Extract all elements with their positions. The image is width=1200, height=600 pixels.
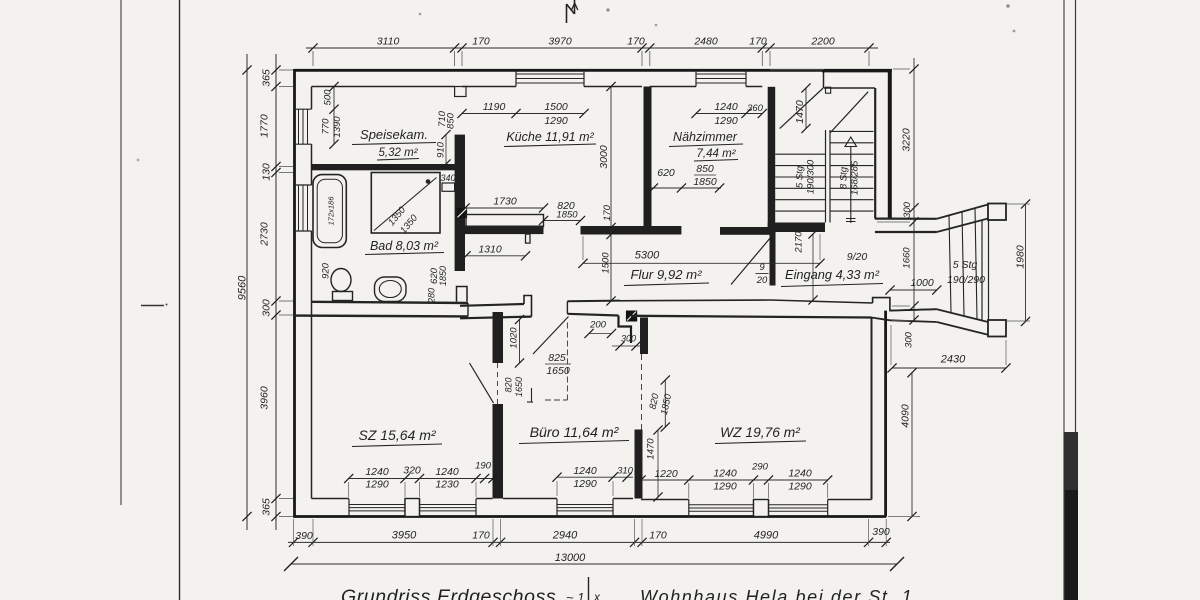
dim text 1850 (Kueche door) <box>556 210 578 221</box>
svg-text:5 Stg: 5 Stg <box>953 259 978 271</box>
dim porch 1000 <box>885 277 941 295</box>
room label Buero <box>519 425 629 444</box>
svg-text:190/290: 190/290 <box>947 274 985 286</box>
svg-text:1470: 1470 <box>646 438 657 460</box>
dim text 3110 <box>377 36 400 48</box>
dim text 920 WC <box>321 262 332 279</box>
wall exterior bottom inner segments <box>312 499 872 500</box>
dim text 850 (Speisekam) <box>446 112 457 129</box>
svg-text:1190: 1190 <box>483 101 506 113</box>
room label WZ <box>715 425 806 444</box>
fold mark dash left <box>141 304 168 306</box>
wall Bad south (300) <box>293 302 468 317</box>
svg-text:1660: 1660 <box>902 247 913 269</box>
dim text 1290 (WZ b) <box>788 481 812 493</box>
dim text 1230 (SZ b) <box>435 479 459 491</box>
stair cellar door jamb <box>826 87 831 93</box>
svg-text:390: 390 <box>872 526 890 538</box>
svg-text:Küche 11,91 m²: Küche 11,91 m² <box>506 130 594 144</box>
svg-text:1240: 1240 <box>714 101 738 113</box>
bathtub <box>313 175 346 248</box>
stair slope diagonal right <box>830 92 868 133</box>
door swing dash SZ <box>497 363 499 404</box>
dim Buero windows row <box>552 473 633 482</box>
svg-text:168/285: 168/285 <box>850 160 861 195</box>
dim line top chain <box>306 43 878 66</box>
title Wohnhaus <box>640 587 913 600</box>
dim text 1290 (Kueche) <box>544 115 568 127</box>
svg-text:365: 365 <box>261 498 273 516</box>
wall Flur north segment Kueche <box>465 226 544 235</box>
dim Kueche window <box>457 109 588 118</box>
svg-text:3950: 3950 <box>392 530 417 542</box>
svg-text:910: 910 <box>436 141 447 158</box>
dim text 130 <box>261 163 273 181</box>
dim line bottom overall <box>284 557 904 571</box>
room label Bad <box>365 239 444 255</box>
svg-text:1240: 1240 <box>713 468 737 480</box>
svg-text:20: 20 <box>756 275 768 286</box>
dim text 390 (right) <box>872 526 890 538</box>
wall Flur north segment Naehzimmer <box>720 227 770 235</box>
page border line left B <box>179 0 181 600</box>
room label Speisekam <box>352 127 436 145</box>
dim text 500 <box>323 89 334 106</box>
dim text 1240 (WZ a) <box>713 468 737 480</box>
wall WZ north <box>620 300 873 318</box>
svg-text:8 Stg: 8 Stg <box>839 166 850 189</box>
dim text 1770 <box>259 114 271 138</box>
dim stair landing 1470 <box>794 83 811 133</box>
dim text 190 <box>475 461 492 472</box>
dim text 1240 (SZ a) <box>365 466 389 478</box>
svg-text:310: 310 <box>617 466 634 477</box>
wall exterior top inner Naehzimmer <box>650 86 763 88</box>
title Grundriss Erdgeschoss <box>341 586 556 600</box>
dim text 9560 <box>237 275 249 300</box>
window SZ bottom 1 <box>349 499 405 517</box>
door corner mark Buero <box>527 388 533 402</box>
svg-text:172x186: 172x186 <box>327 196 336 226</box>
svg-text:~ 1: ~ 1 <box>566 590 584 600</box>
svg-text:1850: 1850 <box>556 210 578 221</box>
dim Naehzimmer door 620 <box>649 167 724 193</box>
external stair top edge <box>937 205 988 233</box>
dim text 390 (left) <box>295 530 313 542</box>
svg-text:3970: 3970 <box>548 36 572 48</box>
dim text 9/20 (Haustuer) <box>847 251 868 263</box>
svg-text:320: 320 <box>403 465 421 477</box>
wall exterior stairwell top inner <box>822 71 891 88</box>
svg-text:920: 920 <box>321 262 332 279</box>
door leaf SZ <box>470 363 494 403</box>
dim Kueche door <box>539 216 585 225</box>
wall Flur north segment mid <box>581 226 682 235</box>
svg-text:1240: 1240 <box>788 468 812 480</box>
shower tray <box>371 173 440 234</box>
dim text 3960 <box>259 386 271 410</box>
stair label 5 Stg 190/300 <box>795 159 817 194</box>
svg-text:Eingang 4,33 m²: Eingang 4,33 m² <box>785 267 880 282</box>
svg-text:1290: 1290 <box>365 479 389 491</box>
dim text 300 (left) <box>261 299 273 317</box>
wall Flur south B <box>567 301 620 316</box>
svg-text:770: 770 <box>321 118 332 135</box>
wall exterior bottom outer <box>293 515 886 518</box>
svg-text:1650: 1650 <box>546 365 570 377</box>
stair up arrow <box>845 137 857 223</box>
svg-text:9: 9 <box>759 262 765 273</box>
door leaf Buero <box>533 317 569 355</box>
svg-text:850: 850 <box>696 163 714 175</box>
dim text 1500 (Flur) <box>601 252 612 274</box>
door jamb stub Flur north <box>526 234 531 243</box>
svg-text:1980: 1980 <box>1015 245 1027 269</box>
svg-text:170: 170 <box>649 530 667 542</box>
room label Speisekam area <box>377 147 419 160</box>
svg-text:9560: 9560 <box>237 275 249 300</box>
dim Speisekam window <box>329 82 338 149</box>
bidet <box>375 277 407 302</box>
dim Buero/WZ door 820/1850 <box>648 375 675 431</box>
svg-text:9/20: 9/20 <box>847 251 868 263</box>
svg-text:SZ 15,64 m²: SZ 15,64 m² <box>358 427 436 443</box>
svg-text:300: 300 <box>902 201 913 218</box>
svg-text:3960: 3960 <box>259 386 271 410</box>
svg-text:3110: 3110 <box>377 36 400 48</box>
flue square WZ <box>626 311 637 322</box>
svg-text:300: 300 <box>904 331 915 348</box>
dim text 1240 (Naeh) <box>714 101 738 113</box>
wall SZ/Buero south stub <box>493 404 504 499</box>
wall SZ/Buero north stub <box>493 312 504 363</box>
svg-text:5,32 m²: 5,32 m² <box>379 147 419 159</box>
svg-text:2200: 2200 <box>810 36 835 48</box>
wall stairwell south <box>768 223 825 233</box>
wall top over stair landing (thin lintel) <box>770 69 824 71</box>
flue square Kueche <box>457 208 467 218</box>
svg-text:4090: 4090 <box>900 404 912 428</box>
svg-text:1850: 1850 <box>438 266 448 286</box>
dim text 365 (bottom-left) <box>261 498 273 516</box>
svg-text:1240: 1240 <box>435 466 459 478</box>
svg-text:Büro 11,64 m²: Büro 11,64 m² <box>530 425 620 441</box>
svg-text:170: 170 <box>602 204 613 221</box>
svg-text:1650: 1650 <box>514 377 524 397</box>
dim text 310 <box>617 466 634 477</box>
dim text 770 <box>321 118 332 135</box>
dim ext right chain <box>877 69 910 321</box>
dim text 2940 <box>552 530 578 542</box>
wall step Flur/WZ <box>619 316 632 344</box>
window Bad left <box>295 185 312 231</box>
dim text 620 (Bad door) <box>429 267 440 284</box>
wall jog WZ/Eingang corner <box>873 298 937 311</box>
stair treads right flight <box>830 131 874 211</box>
dim SZ windows row <box>344 474 498 483</box>
wall pier SZ bottom <box>405 499 420 517</box>
dim Flur 5300 <box>578 250 824 268</box>
dim WZ windows row <box>636 475 832 484</box>
svg-text:1290: 1290 <box>573 478 597 490</box>
room label Naehzimmer area <box>694 148 738 161</box>
svg-text:7,44 m²: 7,44 m² <box>697 148 737 160</box>
window Kueche top <box>516 70 584 87</box>
door dash Buero/WZ <box>641 354 643 430</box>
svg-text:1290: 1290 <box>788 481 812 493</box>
svg-text:Bad 8,03 m²: Bad 8,03 m² <box>370 239 439 253</box>
stair slope diagonal left <box>780 88 824 129</box>
svg-text:1230: 1230 <box>435 479 459 491</box>
svg-text:1730: 1730 <box>493 196 517 208</box>
svg-text:620: 620 <box>657 167 675 179</box>
dim text 1240 (SZ b) <box>435 466 459 478</box>
svg-text:3000: 3000 <box>598 145 610 169</box>
dim text 2730 <box>259 222 271 247</box>
wall exterior stairwell right inner <box>874 88 876 219</box>
room label Flur <box>624 267 709 286</box>
svg-text:190: 190 <box>475 461 492 472</box>
wall exterior top inner Speisekam <box>312 86 455 88</box>
wall Buero/WZ south stub <box>635 430 643 499</box>
dim text 3970 <box>548 36 572 48</box>
wall Buero/WZ north stub <box>640 318 648 355</box>
svg-text:5300: 5300 <box>635 250 660 262</box>
svg-text:2730: 2730 <box>259 222 271 247</box>
dim text 2200 <box>810 36 835 48</box>
dim text 300 (right top) <box>902 201 913 218</box>
svg-text:Grundriss Erdgeschoss: Grundriss Erdgeschoss <box>341 586 556 600</box>
toilet WC <box>331 269 353 301</box>
stair treads left flight <box>775 154 825 211</box>
window SZ bottom 2 <box>420 499 477 517</box>
dim ext 4090 <box>888 516 920 518</box>
dim ext Buero windows <box>557 481 613 496</box>
svg-text:825: 825 <box>548 352 566 364</box>
svg-text:2170: 2170 <box>794 231 805 254</box>
svg-text:365: 365 <box>261 69 273 87</box>
wall Speisekam south <box>312 164 466 170</box>
window WZ bottom 2 <box>769 500 828 517</box>
svg-text:130: 130 <box>261 163 273 181</box>
dim text 1850 (Bad door) <box>438 266 448 286</box>
svg-text:Speisekam.: Speisekam. <box>360 127 428 142</box>
door jamb bump SZ north <box>524 296 532 317</box>
dim text 340 <box>440 173 455 183</box>
svg-text:170: 170 <box>472 530 490 542</box>
dim text 13000 <box>555 552 586 564</box>
scan speck c <box>137 13 422 162</box>
dim ext SZ windows <box>349 482 476 497</box>
svg-text:5 Stg: 5 Stg <box>795 165 806 188</box>
window Naehzimmer top <box>696 70 746 87</box>
dim text 320 <box>403 465 421 477</box>
svg-text:1390: 1390 <box>332 116 343 138</box>
wall Naehzimmer east <box>768 87 776 232</box>
kitchen counter <box>466 215 544 231</box>
dim text 290 <box>751 462 769 473</box>
dim text 4990 <box>754 530 779 542</box>
wall exterior right inner (lower) <box>871 318 873 500</box>
page border line left A <box>120 0 122 505</box>
svg-text:1290: 1290 <box>544 115 568 127</box>
dim text 170 (bottom b) <box>649 530 667 542</box>
dim text 850/1850 (Naeh door) <box>693 163 717 188</box>
dim line left chain <box>271 54 293 530</box>
window Speisekam left <box>295 109 312 144</box>
dim text 170 (b) <box>627 36 645 48</box>
wall exterior left inner <box>311 87 313 499</box>
svg-text:3220: 3220 <box>901 128 913 152</box>
door leaf Flur/Eingang <box>731 231 777 285</box>
external stair bottom block <box>988 320 1006 337</box>
svg-text:1290: 1290 <box>714 115 738 127</box>
svg-text:170: 170 <box>749 36 767 48</box>
svg-text:280: 280 <box>427 288 437 304</box>
wall exterior top inner Kueche <box>462 86 642 88</box>
svg-text:1770: 1770 <box>259 114 271 138</box>
dim Eingang 2170 <box>794 229 818 304</box>
dim text 3000 <box>598 145 610 169</box>
svg-text:1290: 1290 <box>713 481 737 493</box>
dim line right chain <box>909 58 918 325</box>
svg-text:190/300: 190/300 <box>806 159 817 194</box>
dim text 300 (right bottom) <box>904 331 915 348</box>
dim text 1190 <box>483 101 506 113</box>
door jamb stub Bad/Flur <box>457 287 468 302</box>
dim text 9/20 (Flur door) <box>756 262 769 286</box>
dim step 300 <box>612 334 642 351</box>
wall exterior right outer (lower) <box>884 311 887 517</box>
page border line right A <box>1063 0 1065 600</box>
dim Speisekam door 910 <box>436 130 451 169</box>
svg-text:200: 200 <box>589 320 607 331</box>
north arrow N <box>567 0 578 23</box>
dim text 820/1650 (SZ door) <box>504 377 525 397</box>
scan speck a <box>606 8 657 26</box>
svg-text:1240: 1240 <box>573 465 597 477</box>
dim Bad 1310 <box>461 244 530 261</box>
wall Flur south A <box>460 304 532 318</box>
svg-text:360: 360 <box>747 103 764 114</box>
dim text 1290 (SZ a) <box>365 479 389 491</box>
svg-text:300: 300 <box>261 299 273 317</box>
dim ext WZ windows <box>689 483 828 498</box>
svg-text:820: 820 <box>504 377 514 392</box>
dim text 280 <box>427 288 437 304</box>
svg-text:1310: 1310 <box>478 244 502 256</box>
scan speck b <box>1006 4 1015 32</box>
external stair top block <box>988 204 1006 221</box>
window Buero bottom <box>557 499 613 517</box>
svg-text:Nähzimmer: Nähzimmer <box>673 130 738 144</box>
svg-text:1220: 1220 <box>654 468 678 480</box>
dim text 3950 <box>392 530 417 542</box>
dim text 170 (c) <box>749 36 767 48</box>
dim text 1390 <box>332 116 343 138</box>
dim text 1290 (WZ a) <box>713 481 737 493</box>
dim text 1290 (Naeh) <box>714 115 738 127</box>
svg-text:2480: 2480 <box>693 36 718 48</box>
dim ext 2430 <box>891 325 1006 365</box>
room label Kueche <box>504 130 596 147</box>
dim text 5 Stg (porch) <box>953 259 978 271</box>
dim Kueche vertical 3000 <box>606 82 615 306</box>
wall Kueche/Naehzimmer <box>644 87 652 230</box>
dim text 710 <box>437 110 448 127</box>
dim text 1290 (Buero) <box>573 478 597 490</box>
dim SZ door 1020 <box>509 315 525 368</box>
svg-text:500: 500 <box>323 89 334 106</box>
dim text 1240 (WZ b) <box>788 468 812 480</box>
wall pier WZ bottom <box>754 500 769 517</box>
svg-text:1240: 1240 <box>365 466 389 478</box>
svg-text:290: 290 <box>751 462 769 473</box>
external stair treads <box>949 208 977 318</box>
stair stringer <box>826 130 831 223</box>
dim WZ right 4090 <box>900 368 917 521</box>
window WZ bottom 1 <box>689 500 754 517</box>
wall exterior top outer <box>294 69 892 72</box>
dim text 170 (vert) <box>602 204 613 221</box>
dim text 1220 <box>654 468 678 480</box>
svg-text:2430: 2430 <box>940 354 966 366</box>
dim porch 1980 <box>1015 199 1031 326</box>
dim text 2480 <box>693 36 718 48</box>
external stair bottom edge <box>937 309 988 335</box>
page border line right B <box>1075 0 1077 434</box>
svg-text:1850: 1850 <box>693 176 717 188</box>
svg-text:170: 170 <box>627 36 645 48</box>
svg-text:390: 390 <box>295 530 313 542</box>
dim text 190/290 (porch) <box>947 274 985 286</box>
dim line bottom chain <box>288 519 891 547</box>
room label Eingang <box>781 267 883 287</box>
dim Kueche counter 1730 <box>460 196 548 213</box>
dim text 365 (top-left) <box>261 69 273 87</box>
svg-text:WZ 19,76 m²: WZ 19,76 m² <box>720 425 800 440</box>
room label SZ <box>352 427 442 447</box>
wall Flur/Eingang stub <box>770 232 776 286</box>
dim text 170 (a) <box>472 36 490 48</box>
wall Speisekam/Kueche east door notch <box>455 87 466 97</box>
svg-text:170: 170 <box>472 36 490 48</box>
dim text 820 (Kueche door) <box>557 200 575 212</box>
dim text 1660 <box>902 247 913 269</box>
dim text 360 <box>747 103 764 114</box>
dim text 1500 <box>544 101 568 113</box>
scan shadow bar right <box>1064 432 1079 600</box>
svg-text:x: x <box>593 590 601 600</box>
dim text 3220 <box>901 128 913 152</box>
room label Naehzimmer <box>669 130 743 147</box>
svg-text:13000: 13000 <box>555 552 586 564</box>
dim step 200 <box>584 320 616 339</box>
dim Naehzimmer window <box>691 109 767 118</box>
svg-text:1000: 1000 <box>910 277 934 289</box>
svg-text:Flur 9,92 m²: Flur 9,92 m² <box>630 267 702 282</box>
wall Bad east <box>455 135 465 271</box>
dim 2430 <box>887 354 1010 373</box>
svg-text:300: 300 <box>621 334 636 344</box>
svg-text:1470: 1470 <box>794 100 806 124</box>
wall exterior left outer <box>293 69 296 517</box>
shower niche box 340 <box>442 183 455 191</box>
dim text 170 (bottom a) <box>472 530 490 542</box>
svg-text:2940: 2940 <box>552 530 578 542</box>
dim line left overall 9560 <box>242 54 251 530</box>
wall porch north band <box>875 219 937 232</box>
